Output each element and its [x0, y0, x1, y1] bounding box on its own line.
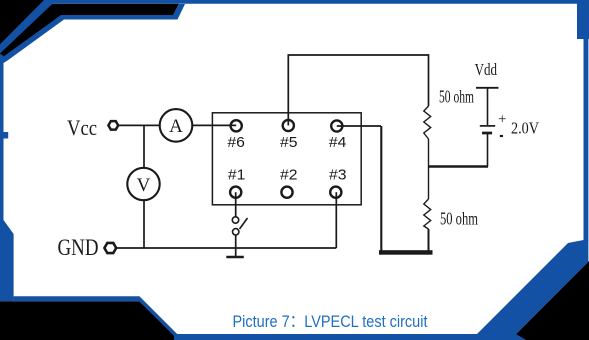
- pin #1: [230, 187, 241, 198]
- wire battery to junction: [487, 134, 489, 167]
- wire junction to battery: [429, 165, 489, 168]
- svg-text:+: +: [498, 112, 506, 128]
- resistor R1 50 ohm (upper): [424, 106, 431, 139]
- wire pin #4 to right drop: [337, 125, 381, 127]
- switch S1 lower contact: [233, 229, 239, 235]
- svg-text:50 ohm: 50 ohm: [439, 87, 474, 107]
- pin #2: [281, 187, 292, 198]
- decorative frame: bottom-right black corner: [516, 261, 589, 340]
- decorative frame: bottom strip: [174, 334, 526, 340]
- svg-text:#4: #4: [329, 134, 347, 151]
- svg-text:Vcc: Vcc: [67, 115, 97, 140]
- svg-text:#1: #1: [228, 167, 246, 184]
- decorative frame: top-left black corner: [0, 0, 56, 59]
- decorative frame: right thin line: [584, 39, 589, 242]
- svg-text:#5: #5: [280, 134, 298, 151]
- svg-text:#6: #6: [227, 134, 245, 151]
- wire pin #5 to top rail to resistor chain: [288, 55, 428, 126]
- svg-text:2.0V: 2.0V: [511, 119, 540, 138]
- switch S1 lever: [240, 218, 248, 229]
- decorative frame: blue outer band: [0, 0, 589, 54]
- wire switch to GND rail: [235, 235, 237, 248]
- svg-text:#2: #2: [280, 167, 298, 184]
- decorative frame: blue underline band: [4, 4, 186, 63]
- wire Vdd bar to battery: [487, 88, 489, 125]
- decorative frame: left vertical line: [0, 54, 14, 302]
- Vdd rail bar: [476, 87, 499, 89]
- wire pin #1 to switch: [235, 192, 237, 217]
- svg-text:Picture 7：LVPECL test circuit: Picture 7：LVPECL test circuit: [233, 312, 428, 331]
- ground stub below rail: [235, 248, 237, 258]
- pin #3: [330, 187, 341, 198]
- svg-text:V: V: [137, 175, 151, 196]
- resistor R2 50 ohm (lower): [424, 199, 431, 229]
- voltmeter V: [127, 168, 159, 200]
- battery negative plate: [482, 132, 492, 135]
- terminal GND: [104, 243, 116, 253]
- svg-text:#3: #3: [329, 167, 347, 184]
- terminal Vcc: [108, 121, 118, 129]
- thick bottom bar: [379, 250, 433, 255]
- label minus: [500, 135, 503, 137]
- pin #4: [331, 120, 342, 131]
- wire resistor chain middle: [428, 139, 430, 199]
- svg-text:GND: GND: [58, 235, 99, 260]
- ground bar: [226, 256, 244, 259]
- wire Vcc to ammeter to pin #6: [113, 124, 236, 126]
- svg-text:A: A: [169, 116, 183, 137]
- ammeter A: [160, 109, 193, 142]
- svg-text:Vdd: Vdd: [475, 60, 498, 79]
- decorative frame: bottom-right wide blue diagonal: [471, 240, 588, 340]
- DUT box: [212, 113, 361, 205]
- battery positive plate: [480, 125, 495, 127]
- wire resistor chain bottom: [428, 229, 430, 253]
- wire pin #3 to GND rail: [335, 192, 337, 248]
- pin #5: [283, 120, 294, 131]
- decorative frame: top black band: [0, 4, 179, 62]
- wire GND rail: [110, 247, 336, 249]
- pin #6: [231, 120, 242, 131]
- switch S1 upper contact: [232, 217, 238, 223]
- decorative frame: top-right block: [577, 0, 589, 39]
- decorative frame: bottom-left blue line and diagonal: [14, 296, 184, 340]
- decorative frame: bottom-left black region: [0, 301, 179, 340]
- svg-text:50 ohm: 50 ohm: [440, 209, 478, 229]
- decorative frame: left tick: [0, 132, 8, 139]
- wire junction vertical Vcc to voltmeter to GND: [143, 125, 145, 248]
